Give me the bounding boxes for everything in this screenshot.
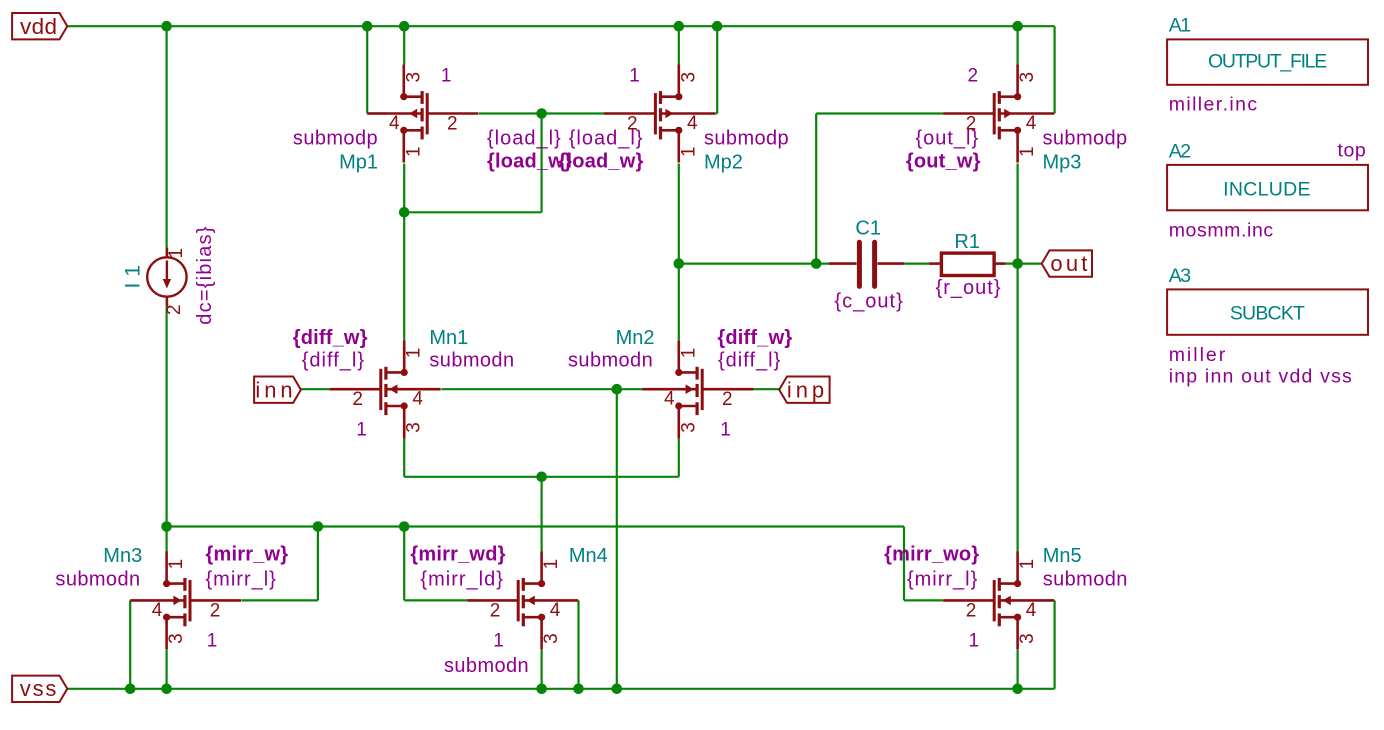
svg-text:1: 1 [541, 559, 562, 570]
svg-text:1: 1 [493, 631, 504, 652]
svg-text:1: 1 [678, 348, 699, 359]
svg-text:4: 4 [412, 389, 423, 410]
svg-text:2: 2 [490, 600, 501, 621]
svg-text:Mp1: Mp1 [339, 151, 378, 173]
svg-text:inn: inn [255, 377, 296, 402]
svg-text:{diff_l}: {diff_l} [302, 350, 365, 372]
svg-text:4: 4 [550, 600, 561, 621]
svg-text:{diff_w}: {diff_w} [293, 327, 368, 349]
svg-text:out: out [1050, 251, 1090, 276]
svg-text:Mn2: Mn2 [616, 327, 655, 349]
svg-text:2: 2 [722, 389, 733, 410]
svg-text:submodn: submodn [568, 350, 653, 372]
svg-text:{diff_l}: {diff_l} [718, 350, 781, 372]
svg-text:C1: C1 [855, 218, 881, 240]
svg-text:submodn: submodn [429, 350, 514, 372]
svg-text:{out_l}: {out_l} [915, 128, 979, 150]
svg-text:submodp: submodp [293, 128, 378, 150]
svg-text:A3: A3 [1169, 265, 1191, 287]
svg-text:2: 2 [352, 389, 363, 410]
svg-text:4: 4 [389, 113, 400, 134]
svg-text:2: 2 [968, 66, 979, 87]
svg-text:submodn: submodn [444, 655, 529, 677]
svg-text:1: 1 [166, 248, 187, 259]
svg-text:4: 4 [152, 600, 163, 621]
svg-text:vdd: vdd [20, 14, 57, 39]
svg-text:top: top [1337, 140, 1366, 162]
svg-text:2: 2 [164, 304, 185, 315]
svg-text:2: 2 [210, 600, 221, 621]
svg-text:4: 4 [1026, 113, 1037, 134]
svg-text:miller: miller [1169, 344, 1228, 366]
svg-text:inp: inp [787, 377, 828, 402]
svg-text:{r_out}: {r_out} [936, 277, 1002, 299]
svg-text:{out_w}: {out_w} [906, 150, 981, 172]
svg-text:{c_out}: {c_out} [835, 291, 904, 313]
svg-text:{diff_w}: {diff_w} [717, 327, 792, 349]
svg-text:inp inn out vdd vss: inp inn out vdd vss [1169, 366, 1353, 388]
svg-text:{mirr_wo}: {mirr_wo} [884, 544, 979, 566]
svg-text:{mirr_w}: {mirr_w} [206, 544, 289, 566]
svg-text:1: 1 [1017, 559, 1038, 570]
svg-text:Mn1: Mn1 [429, 327, 468, 349]
svg-text:{load_l}: {load_l} [569, 128, 644, 150]
svg-text:3: 3 [678, 422, 699, 433]
svg-text:Mp2: Mp2 [704, 151, 743, 173]
svg-text:1: 1 [969, 631, 980, 652]
svg-text:2: 2 [966, 600, 977, 621]
svg-text:OUTPUT_FILE: OUTPUT_FILE [1208, 51, 1327, 73]
svg-text:2: 2 [447, 114, 458, 135]
svg-text:{load_l}: {load_l} [487, 128, 562, 150]
svg-text:1: 1 [403, 146, 424, 157]
svg-text:1: 1 [1017, 146, 1038, 157]
svg-text:mosmm.inc: mosmm.inc [1169, 219, 1274, 241]
svg-text:{mirr_wd}: {mirr_wd} [410, 544, 505, 566]
svg-text:1: 1 [720, 419, 731, 440]
svg-text:Mp3: Mp3 [1043, 151, 1082, 173]
svg-text:3: 3 [678, 72, 699, 83]
svg-text:submodp: submodp [1043, 128, 1128, 150]
svg-text:3: 3 [404, 422, 425, 433]
svg-text:A1: A1 [1169, 14, 1191, 36]
svg-text:vss: vss [20, 676, 58, 701]
svg-text:4: 4 [1026, 600, 1037, 621]
svg-text:Mn5: Mn5 [1043, 545, 1082, 567]
svg-text:A2: A2 [1169, 140, 1191, 162]
svg-text:Mn3: Mn3 [103, 545, 142, 567]
svg-text:I1: I1 [121, 259, 144, 289]
svg-text:3: 3 [403, 72, 424, 83]
svg-text:1: 1 [678, 146, 699, 157]
svg-text:Mn4: Mn4 [569, 545, 608, 567]
svg-text:3: 3 [166, 633, 187, 644]
svg-text:1: 1 [629, 66, 640, 87]
svg-text:{mirr_l}: {mirr_l} [206, 568, 277, 590]
svg-text:1: 1 [207, 631, 218, 652]
svg-text:3: 3 [1017, 633, 1038, 644]
svg-text:INCLUDE: INCLUDE [1223, 179, 1311, 201]
svg-text:R1: R1 [954, 231, 980, 253]
svg-text:4: 4 [687, 113, 698, 134]
svg-text:dc={ibias}: dc={ibias} [194, 225, 216, 324]
svg-text:miller.inc: miller.inc [1169, 94, 1259, 116]
svg-text:submodp: submodp [704, 128, 789, 150]
svg-text:4: 4 [664, 389, 675, 410]
svg-text:1: 1 [166, 559, 187, 570]
svg-text:{mirr_ld}: {mirr_ld} [420, 568, 503, 590]
svg-text:1: 1 [356, 419, 367, 440]
svg-text:SUBCKT: SUBCKT [1230, 303, 1305, 325]
svg-text:{load_w}: {load_w} [559, 150, 644, 172]
svg-text:1: 1 [404, 348, 425, 359]
svg-text:1: 1 [441, 66, 452, 87]
svg-text:3: 3 [541, 633, 562, 644]
svg-text:submodn: submodn [55, 568, 140, 590]
svg-text:{mirr_l}: {mirr_l} [907, 568, 978, 590]
svg-text:3: 3 [1017, 72, 1038, 83]
svg-text:submodn: submodn [1043, 568, 1128, 590]
